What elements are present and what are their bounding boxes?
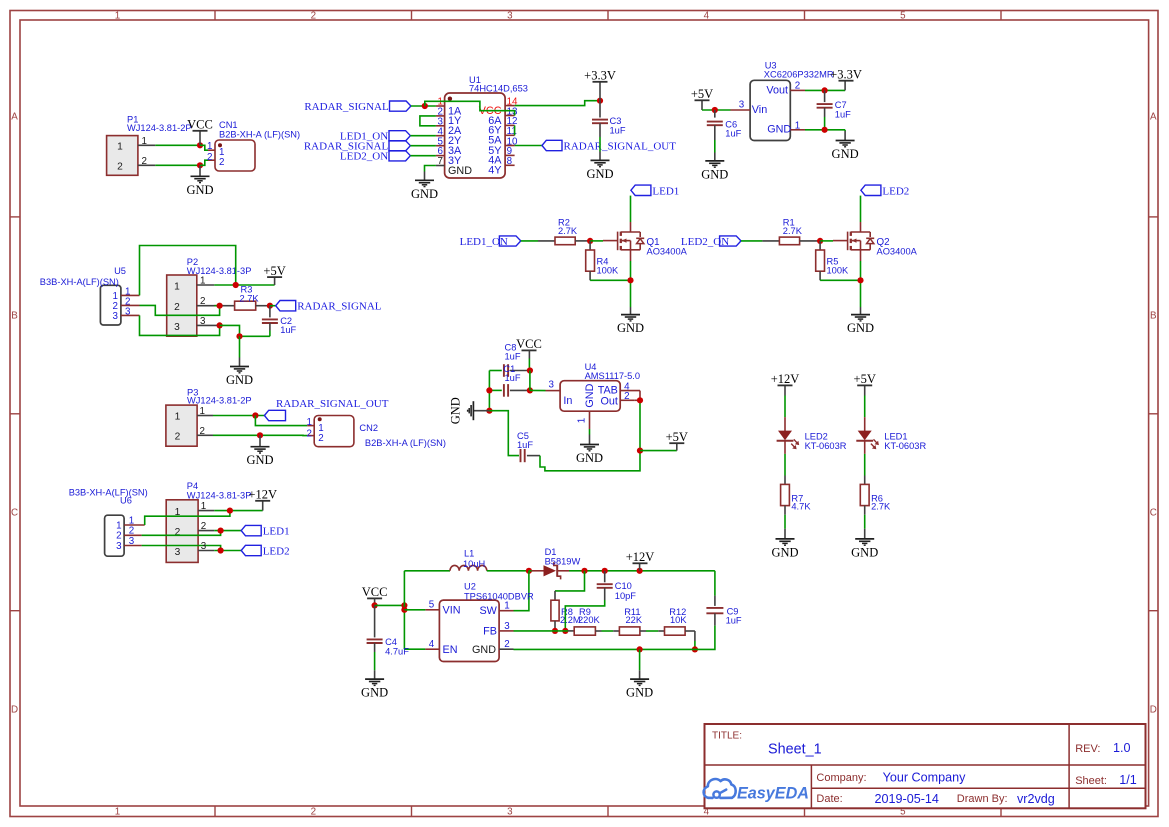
node R3 right junction bbox=[267, 303, 273, 309]
svg-text:1uF: 1uF bbox=[505, 373, 521, 383]
wire U1.14 VCC to +3.3V node bbox=[515, 101, 600, 106]
R8 lead to FB line bbox=[554, 621, 556, 631]
svg-text:Sheet:: Sheet: bbox=[1075, 775, 1107, 787]
ground symbol at U1.7 bbox=[411, 172, 438, 201]
U4 pin 3 (In) bbox=[546, 380, 561, 391]
node P2.3 junction bbox=[217, 322, 223, 328]
inductor L1 10uH bbox=[450, 549, 487, 571]
svg-text:Date:: Date: bbox=[816, 793, 842, 805]
resistor R11 22K bbox=[619, 607, 642, 635]
node Q2 source junction bbox=[857, 277, 863, 283]
svg-text:2: 2 bbox=[207, 152, 212, 163]
node C10 bottom junction bbox=[562, 628, 568, 634]
svg-text:Your Company: Your Company bbox=[883, 771, 967, 785]
+3.3V power flag at U3 bbox=[830, 68, 862, 91]
U3 pin 3 (Vin) bbox=[731, 100, 751, 111]
svg-text:1uF: 1uF bbox=[726, 616, 742, 626]
connector CN2 (B2B-XH-A (LF)(SN)) bbox=[314, 416, 446, 449]
wire P2.3 to GND node bbox=[220, 325, 240, 336]
wire to EN bbox=[404, 648, 425, 650]
svg-text:B: B bbox=[1150, 311, 1157, 322]
net flag LED2_ON at Q2 gate bbox=[681, 236, 741, 248]
wire P4.1 to +12V bbox=[214, 510, 262, 512]
U4 pin 2 (Out) bbox=[620, 391, 640, 402]
+3.3V power flag bbox=[584, 69, 616, 101]
wire FB line bbox=[514, 630, 575, 632]
svg-text:SW: SW bbox=[479, 605, 497, 617]
svg-text:WJ124-3.81-2P: WJ124-3.81-2P bbox=[127, 123, 192, 133]
svg-text:C4: C4 bbox=[385, 637, 397, 647]
svg-text:4.7uF: 4.7uF bbox=[385, 646, 409, 656]
resistor R6 2.7K bbox=[860, 484, 891, 511]
P2 pin 1 bbox=[197, 276, 215, 287]
capacitor C8 1uF bbox=[489, 343, 530, 377]
svg-text:1uF: 1uF bbox=[835, 109, 851, 119]
node C7 top junction bbox=[822, 87, 828, 93]
wire R7 to ground bbox=[784, 506, 786, 539]
wire VCC to input vertical bbox=[375, 604, 405, 606]
wire LED1 to R6 bbox=[864, 441, 866, 485]
svg-text:B2B-XH-A (LF)(SN): B2B-XH-A (LF)(SN) bbox=[365, 438, 446, 448]
net flag RADAR_SIGNAL at U1.1 bbox=[304, 101, 411, 113]
wire C7 to GND wire bbox=[824, 117, 826, 130]
svg-text:2.7K: 2.7K bbox=[783, 226, 803, 236]
wire U3.1 to ground bbox=[805, 129, 845, 131]
svg-text:B3B-XH-A(LF)(SN): B3B-XH-A(LF)(SN) bbox=[69, 487, 148, 497]
resistor R3 2.7K bbox=[235, 285, 260, 311]
VCC power flag at U2 bbox=[362, 585, 388, 605]
wire GND node to CN1.2 bbox=[200, 160, 208, 165]
node P3.1 junction bbox=[252, 412, 258, 418]
wire LED2_ON to U1.6 bbox=[410, 155, 436, 157]
IC U1 74HC14D,653 bbox=[445, 75, 528, 178]
wire C6 to ground bbox=[714, 140, 716, 153]
ground flag sideways at U4 input bbox=[449, 397, 490, 424]
wire U1.10 to RADAR_SIGNAL_OUT flag bbox=[515, 145, 542, 147]
U2 pin 3 (FB) bbox=[499, 621, 513, 632]
U4 pin 1 (GND) bbox=[576, 411, 589, 429]
net flag RADAR_SIGNAL_OUT at P3 bbox=[264, 398, 388, 421]
svg-text:1.0: 1.0 bbox=[1113, 741, 1131, 755]
U3 pin 1 (GND) bbox=[790, 120, 805, 131]
svg-text:4: 4 bbox=[704, 10, 710, 21]
node C10 top junction bbox=[602, 568, 608, 574]
svg-text:+12V: +12V bbox=[248, 488, 277, 502]
svg-text:3: 3 bbox=[739, 100, 745, 111]
U5 pin 3 bbox=[113, 306, 140, 321]
svg-text:3: 3 bbox=[175, 547, 181, 558]
svg-text:+5V: +5V bbox=[666, 430, 688, 444]
frame column labels 1-5 bottom bbox=[115, 807, 906, 818]
svg-text:4: 4 bbox=[429, 639, 435, 650]
svg-text:22K: 22K bbox=[626, 615, 643, 625]
svg-text:C: C bbox=[1150, 508, 1157, 519]
P1 pin 2 bbox=[138, 156, 155, 167]
svg-text:4Y: 4Y bbox=[488, 165, 501, 177]
wire U3.2 to +3.3V bbox=[805, 89, 845, 91]
U1 pin 4 (2Y) bbox=[436, 126, 461, 147]
wire U5.1 loop to P2.1 bbox=[140, 246, 236, 296]
ground symbol at R7 bbox=[771, 539, 798, 560]
svg-text:1uF: 1uF bbox=[280, 325, 296, 335]
svg-text:10pF: 10pF bbox=[615, 591, 637, 601]
svg-text:3: 3 bbox=[504, 621, 510, 632]
svg-text:GND: GND bbox=[847, 321, 874, 335]
svg-text:VCC: VCC bbox=[516, 337, 542, 351]
svg-text:2: 2 bbox=[142, 156, 147, 167]
svg-text:3: 3 bbox=[201, 541, 207, 552]
resistor R9 220K bbox=[574, 607, 600, 635]
svg-text:A: A bbox=[11, 112, 18, 123]
node SW junction bbox=[526, 568, 532, 574]
R1 lead to gate node bbox=[800, 240, 821, 242]
node Q1 source junction bbox=[627, 277, 633, 283]
resistor R5 100K bbox=[816, 241, 849, 275]
svg-text:2: 2 bbox=[504, 639, 509, 650]
connector P3 (WJ124-3.81-2P) bbox=[166, 388, 252, 447]
svg-text:REV:: REV: bbox=[1075, 743, 1100, 755]
svg-text:1: 1 bbox=[117, 141, 123, 152]
svg-text:GND: GND bbox=[448, 165, 472, 177]
wire +5V to LED1 bbox=[864, 396, 866, 432]
svg-text:1uF: 1uF bbox=[610, 126, 626, 136]
frame row labels A-D left bbox=[11, 112, 18, 716]
wire GND node to C5 bbox=[489, 411, 519, 456]
U1 pin 10 (5Y) bbox=[488, 136, 518, 157]
svg-text:GND: GND bbox=[576, 451, 603, 465]
svg-text:100K: 100K bbox=[597, 265, 620, 275]
wire P2.2 to R3 bbox=[214, 305, 234, 307]
IC U3 XC6206P332MR bbox=[750, 61, 834, 141]
svg-text:LED2: LED2 bbox=[263, 546, 290, 558]
svg-text:2: 2 bbox=[311, 10, 316, 21]
svg-text:L1: L1 bbox=[464, 549, 474, 559]
node input vertical top junction bbox=[401, 602, 407, 608]
P2 pin 3 bbox=[197, 316, 220, 327]
svg-text:GND: GND bbox=[626, 686, 653, 700]
svg-text:Out: Out bbox=[600, 395, 617, 407]
svg-text:7: 7 bbox=[438, 156, 443, 167]
ground symbol at U3 bbox=[832, 130, 859, 161]
+5V power flag at P2 bbox=[263, 264, 285, 285]
wire P2.1 to +5V bbox=[214, 284, 274, 286]
U1 pin 13 (6A) bbox=[488, 106, 518, 127]
wire P3.1 to flag bbox=[213, 415, 264, 417]
svg-text:2: 2 bbox=[219, 157, 224, 168]
node C1 left junction bbox=[486, 387, 492, 393]
U6 pin 2 bbox=[116, 526, 141, 542]
node Q2 gate junction bbox=[817, 238, 823, 244]
svg-text:2019-05-14: 2019-05-14 bbox=[875, 792, 939, 806]
capacitor C1 1uF bbox=[489, 364, 530, 397]
VCC power flag bbox=[187, 118, 213, 146]
wire P4.3 to LED2 flag bbox=[214, 550, 241, 552]
U2 pin 4 (EN) bbox=[425, 639, 439, 650]
U1 pin 3 (2A) bbox=[436, 116, 462, 137]
input vertical wire bbox=[403, 571, 405, 649]
net flag LED2_ON at U1.6 bbox=[340, 151, 410, 163]
svg-text:GND: GND bbox=[586, 167, 613, 181]
net flag LED1_ON at Q1 gate bbox=[460, 236, 521, 248]
wire U6.2 to P4.2 node bbox=[142, 531, 221, 536]
wire R5 to source node bbox=[820, 271, 860, 280]
P4 pin 1 bbox=[198, 501, 214, 512]
net flag LED1 at Q1 drain bbox=[631, 185, 679, 197]
svg-text:GND: GND bbox=[411, 187, 438, 201]
+12V power flag at LED2 bbox=[771, 372, 800, 395]
svg-text:Company:: Company: bbox=[816, 772, 866, 784]
svg-text:GND: GND bbox=[472, 644, 496, 656]
wire top rail to L1 bbox=[404, 570, 450, 572]
CN2 pin 2 bbox=[307, 428, 324, 443]
svg-text:1: 1 bbox=[200, 276, 205, 287]
U1 pin 6 (3Y) bbox=[436, 146, 461, 167]
wire R6 to ground bbox=[864, 506, 866, 539]
wire C5 to Out net bbox=[540, 400, 640, 471]
svg-text:1: 1 bbox=[795, 120, 800, 131]
svg-text:GND: GND bbox=[226, 373, 253, 387]
U6 pin 3 bbox=[116, 536, 141, 552]
connector P4 (WJ124-3.81-3P) bbox=[166, 481, 251, 562]
wire U1.1 to U1.13 over chip bbox=[425, 101, 515, 115]
svg-text:3: 3 bbox=[507, 10, 513, 21]
svg-text:C: C bbox=[11, 508, 18, 519]
resistor R8 2.2M bbox=[551, 600, 581, 625]
svg-text:3: 3 bbox=[129, 536, 135, 547]
svg-text:2: 2 bbox=[117, 161, 123, 172]
svg-text:VIN: VIN bbox=[443, 605, 461, 617]
svg-text:10K: 10K bbox=[670, 615, 687, 625]
node R12 bottom junction bbox=[692, 646, 698, 652]
wire C10 to FB line bbox=[565, 600, 604, 631]
node P3.2 junction bbox=[257, 432, 263, 438]
svg-text:B5819W: B5819W bbox=[545, 557, 581, 567]
svg-text:+5V: +5V bbox=[691, 87, 713, 101]
svg-text:CN2: CN2 bbox=[359, 423, 378, 433]
svg-text:B: B bbox=[11, 311, 18, 322]
P1 pin 1 bbox=[138, 136, 155, 147]
node +12V junction bbox=[637, 568, 643, 574]
svg-text:GND: GND bbox=[832, 147, 859, 161]
svg-text:1/1: 1/1 bbox=[1119, 773, 1137, 787]
wire P4.2 to LED1 flag bbox=[214, 530, 241, 532]
ground symbol at U2 bbox=[626, 670, 653, 699]
node GND junction bbox=[197, 162, 203, 168]
svg-text:WJ124-3.81-3P: WJ124-3.81-3P bbox=[187, 266, 252, 276]
rev text bbox=[1075, 741, 1130, 755]
svg-text:1uF: 1uF bbox=[725, 128, 741, 138]
svg-text:RADAR_SIGNAL_OUT: RADAR_SIGNAL_OUT bbox=[276, 398, 389, 410]
svg-text:2.7K: 2.7K bbox=[871, 502, 891, 512]
wire U6.3 to P4.3 node bbox=[142, 546, 221, 551]
ground symbol at C6 bbox=[701, 153, 728, 182]
svg-text:Vout: Vout bbox=[766, 84, 788, 96]
wire GND node down bbox=[239, 336, 241, 357]
wire C9 to bottom rail bbox=[514, 626, 715, 650]
svg-text:Vin: Vin bbox=[752, 104, 767, 116]
wire to R8 bbox=[555, 571, 585, 600]
LED LED2 KT-0603R bbox=[777, 431, 847, 451]
wire LED1 flag to Q1 drain bbox=[630, 196, 632, 222]
wire RADAR_SIGNAL to U1.1 bbox=[411, 105, 436, 107]
transistor Q1 AO3400A bbox=[603, 222, 688, 261]
capacitor C7 1uF bbox=[817, 90, 852, 119]
net flag LED1 at P4 bbox=[241, 525, 289, 537]
svg-text:In: In bbox=[563, 395, 572, 407]
svg-text:2: 2 bbox=[200, 426, 205, 437]
svg-text:74HC14D,653: 74HC14D,653 bbox=[469, 84, 528, 94]
net flag RADAR_SIGNAL at U1.5 bbox=[304, 141, 411, 153]
+12V power flag at U2 bbox=[626, 550, 655, 571]
svg-text:VCC: VCC bbox=[187, 118, 213, 132]
svg-text:3: 3 bbox=[125, 306, 131, 317]
svg-text:2.7K: 2.7K bbox=[240, 293, 260, 303]
wire VCC node to CN1.1 bbox=[200, 145, 208, 150]
+5V power flag at LED1 bbox=[854, 372, 876, 395]
wire LED1_ON to resistor bbox=[521, 240, 555, 242]
connector P2 (WJ124-3.81-3P) bbox=[167, 257, 252, 336]
wire GND node to C2 bbox=[240, 335, 270, 337]
node VCC junction bbox=[197, 142, 203, 148]
svg-text:GND: GND bbox=[771, 545, 798, 559]
svg-text:Drawn By:: Drawn By: bbox=[957, 793, 1008, 805]
resistor R12 10K bbox=[665, 607, 688, 635]
wire U1.7 to ground bbox=[425, 166, 436, 172]
svg-text:+12V: +12V bbox=[771, 372, 800, 386]
U1 pin 8 (4Y) bbox=[488, 156, 514, 177]
CN1 pin 1 bbox=[207, 141, 224, 158]
R3 lead to RADAR node bbox=[256, 305, 270, 307]
svg-text:D: D bbox=[11, 705, 18, 716]
wire R11 to R12 bbox=[640, 630, 665, 632]
U4 pin 4 (TAB) bbox=[620, 381, 640, 392]
svg-text:+5V: +5V bbox=[854, 372, 876, 386]
capacitor C2 1uF bbox=[262, 306, 297, 337]
svg-text:+5V: +5V bbox=[263, 264, 285, 278]
svg-text:2.7K: 2.7K bbox=[558, 226, 578, 236]
U1 pin 12 (6Y) bbox=[488, 116, 517, 137]
wire LED2 flag to Q2 drain bbox=[860, 196, 862, 222]
date row bbox=[816, 792, 1054, 806]
sheet cell bbox=[1075, 773, 1137, 787]
node P4.3 junction bbox=[218, 547, 224, 553]
wire P3.1 node to CN2.1 bbox=[255, 416, 307, 426]
svg-text:1: 1 bbox=[175, 412, 181, 423]
svg-text:220K: 220K bbox=[578, 615, 601, 625]
svg-text:4.7K: 4.7K bbox=[791, 502, 811, 512]
U1 pin 11 (5A) bbox=[488, 126, 516, 147]
wire Q1 source down bbox=[630, 261, 632, 307]
frame row labels A-D right bbox=[1150, 112, 1157, 716]
node C2 bottom junction bbox=[236, 333, 242, 339]
svg-text:1: 1 bbox=[115, 10, 120, 21]
svg-text:WJ124-3.81-2P: WJ124-3.81-2P bbox=[187, 396, 252, 406]
svg-text:RADAR_SIGNAL: RADAR_SIGNAL bbox=[304, 101, 389, 113]
svg-text:1: 1 bbox=[504, 601, 509, 612]
svg-text:AMS1117-5.0: AMS1117-5.0 bbox=[585, 371, 640, 381]
svg-text:A: A bbox=[1150, 112, 1157, 123]
svg-text:1: 1 bbox=[142, 136, 147, 147]
wire VCC node down to In bbox=[530, 371, 546, 391]
svg-text:B2B-XH-A (LF)(SN): B2B-XH-A (LF)(SN) bbox=[219, 130, 300, 140]
wire U5.3 to P2.3 node bbox=[140, 315, 220, 335]
svg-text:GND: GND bbox=[361, 686, 388, 700]
LED LED1 KT-0603R bbox=[856, 431, 926, 451]
frame column labels 1-5 top bbox=[115, 10, 906, 21]
ground symbol at P2 bbox=[226, 358, 253, 388]
P2 pin 2 bbox=[197, 296, 220, 307]
node P2.2 junction bbox=[217, 303, 223, 309]
node C6 junction bbox=[712, 107, 718, 113]
svg-text:AO3400A: AO3400A bbox=[877, 246, 918, 256]
svg-text:1uF: 1uF bbox=[505, 352, 521, 362]
U2 pin 5 (VIN) bbox=[425, 600, 439, 611]
wire U1.2 to U1.3 loop bbox=[420, 116, 436, 126]
wire gate node to Q1 bbox=[590, 240, 603, 242]
svg-text:GND: GND bbox=[767, 124, 791, 136]
U1 pin 9 (4A) bbox=[488, 146, 514, 167]
U2 pin 1 (SW) bbox=[499, 601, 513, 612]
svg-text:LED2_ON: LED2_ON bbox=[340, 151, 388, 163]
wire Q2 source down bbox=[860, 261, 862, 307]
capacitor C9 1uF bbox=[706, 596, 742, 626]
svg-text:1uF: 1uF bbox=[517, 440, 533, 450]
wire SW node to D1 bbox=[529, 570, 533, 572]
svg-text:2: 2 bbox=[318, 433, 323, 444]
svg-text:+3.3V: +3.3V bbox=[830, 68, 862, 82]
svg-text:1: 1 bbox=[207, 141, 212, 152]
svg-text:FB: FB bbox=[483, 626, 497, 638]
ground symbol at Q2 bbox=[847, 307, 874, 335]
svg-text:GND: GND bbox=[851, 545, 878, 559]
connector U6 (B3B-XH-A(LF)(SN)) bbox=[69, 487, 148, 556]
P4 pin 3 bbox=[198, 541, 214, 552]
wire GND drop at U2 bbox=[639, 649, 641, 670]
ground symbol at P1 bbox=[186, 165, 213, 197]
svg-text:2: 2 bbox=[175, 527, 181, 538]
svg-text:5: 5 bbox=[429, 600, 435, 611]
svg-text:EN: EN bbox=[443, 644, 458, 656]
IC U4 AMS1117-5.0 bbox=[560, 362, 640, 411]
net flag RADAR_SIGNAL at P2 bbox=[276, 301, 382, 313]
connector U5 (B3B-XH-A(LF)(SN)) bbox=[40, 266, 126, 325]
svg-text:3: 3 bbox=[174, 322, 180, 333]
U1 pin 1 (1A) bbox=[436, 97, 462, 118]
wire LED2_ON to resistor bbox=[741, 240, 779, 242]
+12V power flag at P4 bbox=[248, 488, 277, 511]
node C7 bottom junction bbox=[822, 127, 828, 133]
svg-text:3: 3 bbox=[116, 541, 122, 552]
+5V power flag at U4 bbox=[666, 430, 688, 451]
node Q1 gate junction bbox=[587, 238, 593, 244]
svg-text:5: 5 bbox=[900, 10, 906, 21]
U2 pin 2 (GND) bbox=[499, 639, 513, 650]
svg-text:1: 1 bbox=[200, 406, 205, 417]
U5 pin 1 bbox=[113, 286, 140, 301]
node GND flag junction bbox=[486, 408, 492, 414]
svg-text:RADAR_SIGNAL: RADAR_SIGNAL bbox=[297, 301, 382, 313]
svg-text:RADAR_SIGNAL_OUT: RADAR_SIGNAL_OUT bbox=[564, 141, 677, 153]
node +3.3V junction bbox=[597, 98, 603, 104]
wire +5V to U3.3 bbox=[702, 109, 731, 111]
wire +12V to LED2 bbox=[784, 396, 786, 432]
node C8 right junction bbox=[527, 367, 533, 373]
node +5V junction at U4 bbox=[637, 448, 643, 454]
U1 pin 2 (1Y) bbox=[436, 107, 461, 128]
U6 pin 1 bbox=[116, 515, 145, 531]
capacitor C3 1uF bbox=[592, 101, 626, 137]
svg-text:GND: GND bbox=[584, 383, 596, 407]
